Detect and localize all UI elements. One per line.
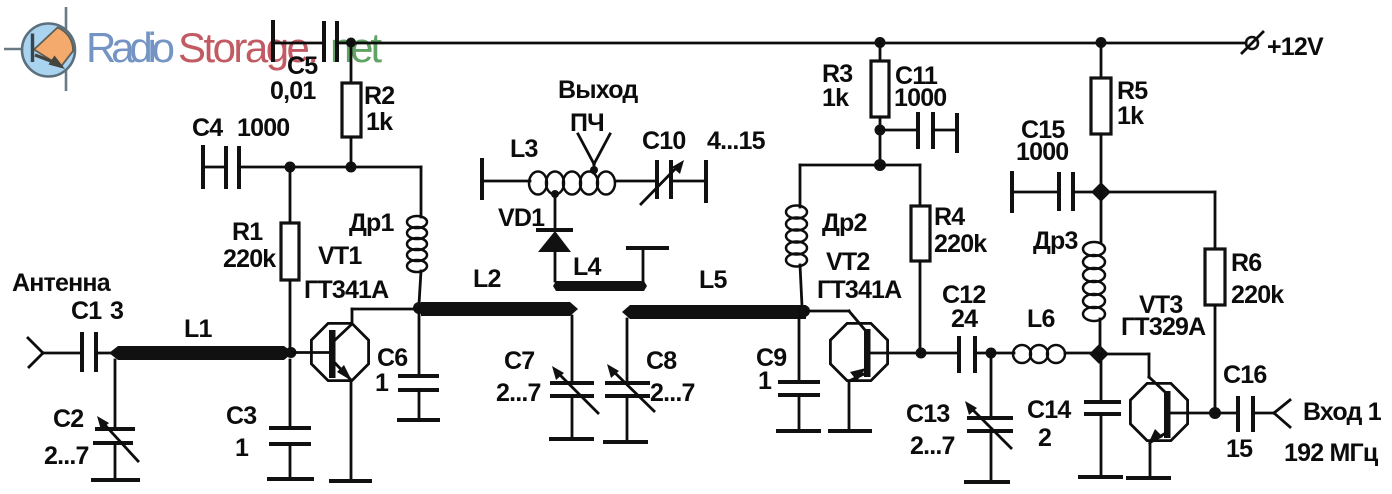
svg-text:1000: 1000 bbox=[1016, 138, 1068, 166]
svg-text:C8: C8 bbox=[646, 347, 677, 375]
svg-text:220k: 220k bbox=[223, 245, 276, 273]
wire collector to node bbox=[352, 308, 419, 311]
svg-text:0,01: 0,01 bbox=[270, 77, 316, 105]
svg-text:ГТ329А: ГТ329А bbox=[1121, 313, 1206, 341]
svg-text:24: 24 bbox=[951, 305, 978, 333]
svg-text:2...7: 2...7 bbox=[650, 379, 695, 407]
resistor R5 bbox=[1091, 43, 1148, 192]
node R2-bottom bbox=[346, 162, 357, 173]
svg-text:2...7: 2...7 bbox=[910, 432, 955, 460]
ground C13 bbox=[966, 480, 1008, 484]
capacitor C6 bbox=[375, 308, 437, 418]
MIDDLE bbox=[421, 76, 806, 442]
resistor R3 bbox=[822, 43, 889, 166]
svg-text:R4: R4 bbox=[934, 203, 965, 231]
capacitor C9 bbox=[756, 311, 818, 429]
resistor R2 bbox=[342, 43, 394, 167]
wire +12V rail bbox=[337, 42, 1246, 45]
svg-text:+12V: +12V bbox=[1267, 33, 1324, 61]
svg-text:1k: 1k bbox=[1117, 102, 1144, 130]
ground C2 bbox=[93, 478, 138, 482]
svg-text:C2: C2 bbox=[53, 405, 83, 433]
node rail-R3 bbox=[875, 37, 886, 48]
capacitor C8 (trimmer) bbox=[607, 319, 695, 440]
svg-text:1000: 1000 bbox=[894, 84, 946, 112]
capacitor C14 bbox=[1027, 354, 1119, 475]
svg-text:R6: R6 bbox=[1231, 249, 1261, 277]
ground C7 bbox=[551, 437, 592, 441]
capacitor C13 (trimmer) bbox=[906, 353, 1011, 480]
svg-text:L6: L6 bbox=[1027, 305, 1055, 333]
rail left terminal bbox=[271, 22, 275, 60]
svg-text:L5: L5 bbox=[699, 266, 727, 294]
svg-text:C6: C6 bbox=[377, 344, 407, 372]
node R3-C11 bbox=[875, 125, 886, 136]
wire emitter VT2 bbox=[848, 381, 851, 429]
svg-text:1: 1 bbox=[375, 369, 389, 397]
svg-text:VD1: VD1 bbox=[498, 204, 545, 232]
input terminal bbox=[1274, 398, 1382, 467]
resistor R4 bbox=[911, 165, 987, 353]
ground C3 bbox=[269, 477, 312, 481]
node L3 tap bbox=[551, 190, 559, 198]
svg-text:1: 1 bbox=[758, 367, 772, 395]
svg-text:Выход: Выход bbox=[558, 76, 638, 104]
choke Dr2 bbox=[786, 165, 867, 306]
logo transistor icon bbox=[4, 7, 75, 91]
svg-text:C4: C4 bbox=[192, 114, 223, 142]
capacitor C11 bbox=[880, 62, 957, 151]
node L6-Dr3-C14-base bbox=[1089, 344, 1109, 364]
svg-text:C3: C3 bbox=[226, 402, 256, 430]
svg-text:L4: L4 bbox=[573, 253, 601, 281]
resistor R1 bbox=[223, 167, 299, 348]
IF output terminal bbox=[558, 76, 638, 174]
ground VT1 bbox=[331, 479, 370, 483]
node C12-L6-C13 bbox=[986, 348, 997, 359]
ground VT3 bbox=[1128, 476, 1169, 480]
node collector-Dr1-L2 bbox=[413, 302, 425, 314]
capacitor C15 bbox=[1012, 116, 1215, 211]
inductor L6 bbox=[991, 305, 1094, 363]
svg-text:L1: L1 bbox=[184, 315, 212, 343]
svg-text:1: 1 bbox=[235, 434, 249, 462]
svg-text:R5: R5 bbox=[1117, 77, 1148, 105]
svg-text:1k: 1k bbox=[822, 84, 849, 112]
capacitor C2 (trimmer) bbox=[44, 360, 138, 479]
node L5-VT2 base bbox=[798, 305, 810, 317]
wire emitter VT3 bbox=[1149, 441, 1152, 476]
svg-text:1k: 1k bbox=[366, 108, 393, 136]
svg-text:ГТ341А: ГТ341А bbox=[304, 276, 389, 304]
svg-text:ПЧ: ПЧ bbox=[570, 109, 604, 137]
transistor VT2 bbox=[806, 248, 902, 381]
svg-text:Вход 1: Вход 1 bbox=[1303, 398, 1382, 426]
transistor VT3 bbox=[1099, 291, 1206, 444]
transistor VT1 bbox=[293, 242, 389, 381]
svg-text:C14: C14 bbox=[1027, 396, 1071, 424]
choke Dr1 bbox=[349, 167, 427, 304]
logo text RadioStorage.net bbox=[86, 24, 382, 71]
capacitor C7 (trimmer) bbox=[496, 316, 598, 437]
inductor L5 (stripline) bbox=[622, 266, 806, 319]
svg-text:C10: C10 bbox=[642, 127, 685, 155]
svg-text:3: 3 bbox=[110, 297, 123, 325]
inductor L2 (stripline) bbox=[421, 265, 578, 316]
svg-text:2...7: 2...7 bbox=[44, 442, 89, 470]
svg-text:R2: R2 bbox=[364, 82, 394, 110]
ground VT2 bbox=[830, 429, 870, 433]
capacitor C5 bbox=[322, 23, 326, 60]
choke Dr3 bbox=[1033, 192, 1105, 349]
svg-text:220k: 220k bbox=[1231, 281, 1284, 309]
capacitor C3 bbox=[226, 360, 309, 477]
svg-text:R1: R1 bbox=[232, 218, 263, 246]
svg-text:2...7: 2...7 bbox=[496, 379, 541, 407]
svg-text:C5: C5 bbox=[287, 52, 318, 80]
wire bbox=[273, 42, 324, 45]
svg-text:Антенна: Антенна bbox=[12, 269, 112, 297]
node R5-C15-Dr3 bbox=[1091, 182, 1111, 202]
node rail-R5 bbox=[1096, 37, 1107, 48]
antenna terminal bbox=[12, 269, 112, 367]
node R6-collector-C16 bbox=[1209, 407, 1221, 419]
ground C14 bbox=[1080, 475, 1121, 479]
capacitor C12 bbox=[921, 281, 991, 371]
node L1-base junction bbox=[286, 347, 297, 358]
svg-text:Др3: Др3 bbox=[1033, 227, 1078, 255]
resistor R6 bbox=[1205, 192, 1284, 414]
capacitor C16 bbox=[1215, 361, 1274, 463]
ground C8 bbox=[605, 440, 646, 444]
svg-text:2: 2 bbox=[1038, 424, 1051, 452]
wire emitter VT1 bbox=[350, 381, 353, 479]
INPUT STAGE bbox=[12, 43, 438, 481]
diode VD1 bbox=[498, 194, 571, 281]
svg-text:VT1: VT1 bbox=[318, 242, 362, 270]
STAGE2 bbox=[756, 43, 1094, 482]
svg-text:220k: 220k bbox=[934, 230, 987, 258]
RAIL bbox=[270, 22, 1324, 105]
node bias VT2 bbox=[874, 159, 886, 171]
svg-text:C13: C13 bbox=[906, 400, 949, 428]
svg-text:Др2: Др2 bbox=[822, 209, 867, 237]
capacitor C10 (trimmer) bbox=[641, 127, 766, 204]
svg-text:L2: L2 bbox=[473, 265, 501, 293]
node C4-R1 bbox=[285, 162, 296, 173]
capacitor C4 bbox=[192, 114, 421, 187]
inductor L3 bbox=[482, 135, 657, 198]
svg-text:192 МГц: 192 МГц bbox=[1284, 439, 1379, 467]
svg-text:1000: 1000 bbox=[237, 114, 289, 142]
svg-text:VT2: VT2 bbox=[826, 248, 869, 276]
ground C6 bbox=[399, 418, 438, 422]
STAGE3 bbox=[1012, 43, 1382, 478]
ground C9 bbox=[778, 429, 819, 433]
+12V terminal bbox=[1246, 37, 1258, 49]
svg-text:Др1: Др1 bbox=[349, 209, 394, 237]
inductor L1 (stripline) bbox=[109, 315, 293, 360]
wire bias row bbox=[800, 164, 920, 167]
svg-text:4...15: 4...15 bbox=[707, 127, 766, 155]
LOGO bbox=[4, 7, 382, 91]
svg-text:ГТ341А: ГТ341А bbox=[817, 276, 902, 304]
node rail-R2 bbox=[346, 38, 356, 48]
svg-text:C16: C16 bbox=[1223, 361, 1266, 389]
svg-text:Radio: Radio bbox=[86, 24, 175, 71]
capacitor C1 bbox=[71, 297, 123, 370]
svg-text:C7: C7 bbox=[504, 347, 534, 375]
inductor L4 (stripline) bbox=[553, 248, 667, 291]
wire collector VT2 bbox=[871, 352, 920, 355]
wire collector VT3 bbox=[1171, 412, 1215, 415]
svg-text:L3: L3 bbox=[510, 135, 538, 163]
svg-text:C1: C1 bbox=[71, 297, 102, 325]
svg-text:15: 15 bbox=[1226, 435, 1253, 463]
node collector-R4-C12 bbox=[916, 348, 927, 359]
